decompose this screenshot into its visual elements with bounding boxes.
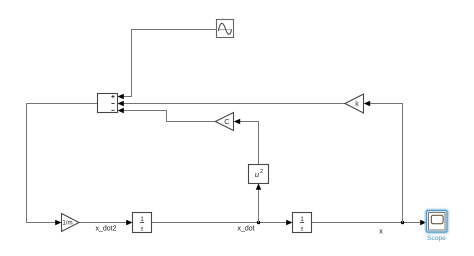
- arrowhead gain 1/m input: [55, 220, 61, 226]
- math function u^2: [249, 165, 269, 184]
- svg-text:1/m: 1/m: [62, 220, 72, 227]
- svg-text:k: k: [355, 101, 359, 108]
- sign minus: [111, 103, 114, 105]
- svg-text:x_dot: x_dot: [237, 226, 254, 233]
- integrator 1 (1/s): [133, 213, 152, 233]
- arrowhead sum top input: [118, 94, 124, 100]
- svg-text:x: x: [379, 229, 383, 236]
- svg-text:s: s: [141, 227, 144, 233]
- svg-text:2: 2: [260, 169, 263, 175]
- wire integrator 1 to integrator 2 (x_dot): [152, 222, 288, 224]
- arrowhead sum bottom input: [118, 108, 124, 114]
- sine wave block: [217, 20, 234, 38]
- arrowhead scope input: [420, 220, 426, 226]
- junction x: [401, 221, 404, 224]
- wire sine to sum: [124, 30, 217, 97]
- sum block: [98, 94, 118, 113]
- arrowhead gain C input: [234, 119, 241, 125]
- arrowhead integrator 1 input: [126, 220, 132, 226]
- wire gain 1/m to integrator 1: [79, 222, 127, 224]
- wire integrator 2 to scope (x): [312, 222, 422, 224]
- arrowhead gain k input: [364, 101, 371, 107]
- gain k: [345, 94, 364, 113]
- svg-text:C: C: [224, 117, 230, 126]
- wire gain C to sum: [124, 111, 216, 122]
- svg-text:x_dot2: x_dot2: [95, 226, 116, 233]
- sign plus: [111, 95, 114, 98]
- sign minus: [111, 109, 114, 111]
- arrowhead u2 input: [256, 184, 262, 190]
- svg-text:s: s: [301, 227, 304, 233]
- gain C: [215, 113, 233, 131]
- arrowhead sum middle input: [118, 101, 124, 107]
- arrowhead integrator 2 input: [286, 220, 292, 226]
- scope (highlighted): [426, 210, 448, 233]
- wire u2 to gain C: [240, 122, 259, 165]
- junction x_dot: [257, 221, 260, 224]
- wire x branch up to gain k: [370, 104, 403, 223]
- gain 1/m: [62, 214, 80, 232]
- wire x_dot branch up to u2: [258, 190, 260, 223]
- wire sum output to gain 1/m: [27, 104, 98, 223]
- svg-text:Scope: Scope: [427, 235, 446, 242]
- wire gain k to sum: [124, 103, 346, 105]
- integrator 2 (1/s): [293, 213, 312, 233]
